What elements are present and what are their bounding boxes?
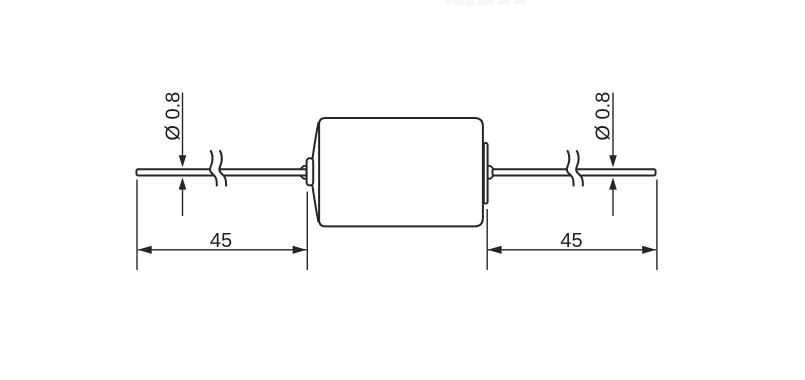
left diameter dimension arrows — [179, 93, 187, 217]
right lead wire — [493, 169, 656, 175]
svg-text:45: 45 — [560, 230, 582, 252]
right diameter dimension arrows — [609, 93, 617, 217]
left lead break mark — [210, 150, 226, 186]
faint cropped text at top edge — [445, 0, 526, 7]
right end lip — [484, 143, 488, 204]
right 45 dimension — [487, 180, 657, 271]
left 45 dimension — [137, 180, 307, 271]
svg-text:45: 45 — [210, 230, 232, 252]
right lead crimp — [488, 166, 494, 179]
left end taper (crimped cone) — [313, 123, 319, 222]
svg-text:Ø 0.8: Ø 0.8 — [163, 92, 185, 141]
left lead crimp — [301, 166, 307, 179]
right lead break mark — [567, 150, 583, 186]
component body (capacitor can) — [319, 118, 483, 226]
left lead wire — [137, 169, 307, 175]
svg-text:Ø 0.8: Ø 0.8 — [593, 92, 615, 141]
left end seal bead — [307, 158, 314, 185]
